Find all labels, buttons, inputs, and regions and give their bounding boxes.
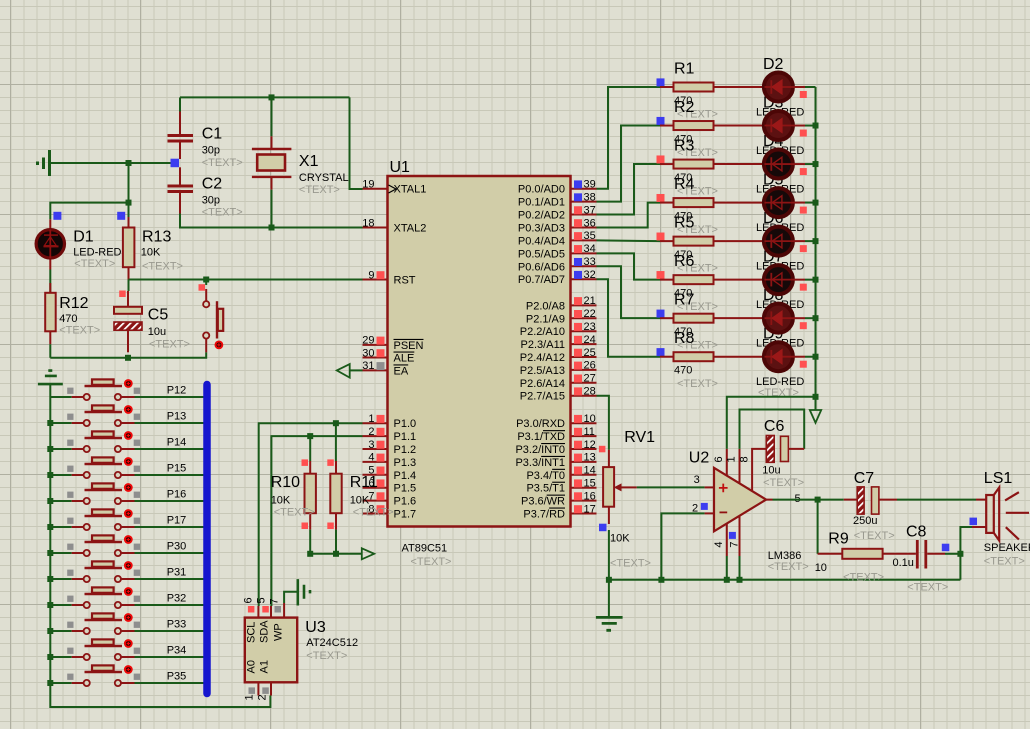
U1 pin 1 (P1.0) (363, 413, 417, 430)
svg-text:<TEXT>: <TEXT> (149, 339, 190, 351)
svg-text:ALE: ALE (394, 353, 415, 365)
junction LED bus row 3 (813, 161, 819, 167)
svg-text:RST: RST (394, 275, 416, 287)
svg-text:10: 10 (815, 562, 827, 574)
wire U1 pin1 to U3 SCL (259, 423, 363, 606)
svg-text:P14: P14 (167, 437, 187, 449)
svg-text:18: 18 (362, 217, 374, 229)
wire XTAL1 branch (350, 97, 363, 189)
junction left rail P32 (47, 602, 53, 608)
wire U1 pin2 to U3 SDA (271, 436, 362, 606)
push button P35 (50, 665, 140, 686)
wire C7 to LS1 (897, 499, 976, 501)
LED D7 (764, 265, 805, 294)
junction LED bus row 8 (813, 354, 819, 360)
bottom rail (audio section) (609, 579, 961, 581)
U1 pin 24 (P2.3/A11) (521, 334, 597, 351)
LED D5 (764, 188, 805, 217)
capacitor C7 (electrolytic) (844, 487, 897, 514)
wire U3 WP to ground (284, 592, 297, 603)
wire P32 to bus (135, 604, 204, 606)
wire EA to arrow (350, 369, 363, 371)
svg-text:R7: R7 (674, 292, 695, 309)
U3 pin 7 (WP) (269, 598, 285, 641)
svg-text:470: 470 (59, 313, 77, 325)
wire C5 top stub (128, 280, 130, 292)
junction at (128.5,202.6) (126, 200, 132, 206)
svg-text:<TEXT>: <TEXT> (907, 582, 948, 594)
svg-text:27: 27 (584, 373, 596, 385)
wire rail up to LS1 bottom (960, 527, 972, 580)
svg-text:A0: A0 (246, 660, 258, 673)
wire U1 pin 34 to R6 (597, 253, 661, 279)
junction LED bus row 7 (813, 315, 819, 321)
wire D2 to LED bus (805, 86, 816, 88)
push button P14 (50, 431, 140, 452)
U1 pin 21 (P2.0/A8) (526, 295, 597, 312)
svg-text:7: 7 (729, 541, 741, 547)
capacitor C6 (electrolytic) (766, 436, 804, 463)
wire top XTAL net (180, 96, 350, 98)
wire U1 pin 33 to R7 (597, 266, 661, 318)
blue terminal marker near R13 top (117, 212, 125, 220)
junction at (128.5,163) (126, 160, 132, 166)
svg-text:<TEXT>: <TEXT> (202, 206, 243, 218)
wire D8 to LED bus (805, 317, 816, 319)
LED D1 (36, 219, 64, 269)
svg-text:R1: R1 (674, 61, 695, 78)
svg-text:P13: P13 (167, 411, 187, 423)
wire P15 to bus (135, 474, 204, 476)
svg-text:P2.1/A9: P2.1/A9 (526, 313, 565, 325)
capacitor C5 (electrolytic) (114, 291, 142, 352)
wire button bank left rail (50, 384, 270, 707)
svg-text:P3.6/WR: P3.6/WR (521, 496, 565, 508)
red terminal marker D8 (800, 322, 807, 329)
U1 pin 33 (P0.6/AD6) (518, 256, 597, 273)
push button P17 (50, 509, 140, 530)
ground (U3 WP) (298, 579, 310, 605)
svg-text:P17: P17 (167, 515, 187, 527)
wire U2 pin7 to rail (739, 556, 741, 580)
svg-text:P15: P15 (167, 463, 187, 475)
red terminal marker D4 (800, 168, 807, 175)
svg-text:C6: C6 (764, 418, 785, 435)
svg-text:<TEXT>: <TEXT> (274, 506, 315, 518)
svg-text:<TEXT>: <TEXT> (610, 558, 651, 570)
svg-text:P3.2/INT0: P3.2/INT0 (515, 444, 565, 456)
svg-text:R3: R3 (674, 138, 695, 155)
ground (bottom, RV1) (596, 617, 623, 630)
svg-text:10u: 10u (762, 464, 780, 476)
svg-text:C7: C7 (854, 470, 875, 487)
svg-text:1: 1 (368, 413, 374, 425)
svg-text:XTAL2: XTAL2 (394, 222, 427, 234)
svg-text:10: 10 (584, 413, 596, 425)
bus bar (blue) (203, 385, 211, 694)
svg-text:<TEXT>: <TEXT> (74, 258, 115, 270)
svg-text:7: 7 (368, 490, 374, 502)
svg-text:P31: P31 (167, 567, 187, 579)
junction left rail P17 (47, 524, 53, 530)
LED D8 (764, 304, 805, 333)
wire D5 to LED bus (805, 202, 816, 204)
resistor R4 (657, 194, 763, 207)
crystal X1 (252, 136, 292, 189)
svg-text:4: 4 (368, 452, 374, 464)
blue terminal marker near D1 top (53, 212, 61, 220)
wire X1 top stub (271, 97, 273, 136)
svg-text:14: 14 (584, 465, 596, 477)
junction LED bus row 4 (813, 200, 819, 206)
svg-text:<TEXT>: <TEXT> (677, 378, 718, 390)
U1 pin 34 (P0.5/AD5) (518, 243, 597, 260)
junction LED bus / U2 pin6 net (813, 394, 819, 400)
svg-text:P2.0/A8: P2.0/A8 (526, 300, 565, 312)
resistor R8 (657, 348, 763, 361)
svg-text:10K: 10K (141, 247, 161, 259)
svg-text:C8: C8 (906, 523, 927, 540)
junction LED bus row 2 (813, 123, 819, 129)
junction at (271.5,97.4) (269, 94, 275, 100)
svg-text:P1.3: P1.3 (394, 457, 417, 469)
svg-text:32: 32 (584, 269, 596, 281)
svg-text:25: 25 (584, 347, 596, 359)
svg-text:SCL: SCL (246, 622, 258, 643)
U1 pin 5 (P1.4) (363, 465, 417, 482)
svg-text:4: 4 (713, 541, 725, 547)
push button P16 (50, 483, 140, 504)
svg-text:1: 1 (244, 694, 256, 700)
svg-text:3: 3 (368, 439, 374, 451)
U1 pin 37 (P0.2/AD2) (518, 204, 597, 221)
svg-text:33: 33 (584, 256, 596, 268)
resistor R6 (657, 271, 763, 284)
svg-text:7: 7 (269, 598, 281, 604)
svg-text:LS1: LS1 (984, 470, 1013, 487)
U3 pin 1 (A0) (244, 660, 258, 700)
wire RV1 wiper to U2 pin3 (637, 486, 705, 488)
wire P35 to bus (135, 682, 204, 684)
U1 pin 18 (XTAL2) (362, 217, 426, 234)
red terminal marker C5 top (119, 291, 126, 298)
wire U1 pin 38 to R2 (597, 126, 661, 202)
red terminal marker D7 (800, 284, 807, 291)
wire U1 pin 39 to R1 (597, 87, 661, 189)
svg-text:C2: C2 (202, 176, 223, 193)
U1 pin 38 (P0.1/AD1) (518, 191, 597, 208)
wire R13 top stub (128, 203, 130, 217)
svg-text:P0.7/AD7: P0.7/AD7 (518, 274, 565, 286)
U1 pin 14 (P3.4/|T0) (526, 465, 596, 482)
junction at (128,357.8) (125, 355, 131, 361)
resistor R11 (327, 459, 341, 529)
junction at (739.5,579.8) (737, 577, 743, 583)
U3 pin 5 (SDA) (256, 597, 271, 643)
push button P15 (50, 457, 140, 478)
svg-text:PSEN: PSEN (394, 340, 424, 352)
U1 pin 6 (P1.5) (363, 478, 417, 495)
blue terminal marker C8 right (942, 544, 950, 552)
wire P14 to bus (135, 448, 204, 450)
push button P34 (50, 639, 140, 660)
svg-text:<TEXT>: <TEXT> (854, 530, 895, 542)
svg-text:P12: P12 (167, 385, 187, 397)
wire RST net R13 to U1 pin 9 (129, 279, 363, 281)
junction left rail P14 (47, 446, 53, 452)
wire node down to D1/R13 row (128, 163, 130, 203)
svg-text:P35: P35 (167, 671, 187, 683)
svg-text:D2: D2 (763, 56, 784, 73)
svg-text:XTAL1: XTAL1 (394, 184, 427, 196)
wire U2 output to C7 (773, 499, 844, 501)
wire P33 to bus (135, 630, 204, 632)
svg-text:<TEXT>: <TEXT> (59, 325, 100, 337)
wire U2 pin1 loop (740, 410, 805, 449)
svg-text:23: 23 (584, 321, 596, 333)
U1 pin 8 (P1.7) (363, 503, 417, 520)
wire U1 pin 35 to R5 (597, 239, 661, 242)
wire P16 to bus (135, 500, 204, 502)
svg-text:P1.5: P1.5 (394, 483, 417, 495)
wire U1 pin28 to RV1 (597, 396, 609, 450)
svg-text:470: 470 (674, 365, 692, 377)
svg-text:250u: 250u (853, 515, 877, 527)
svg-text:R9: R9 (828, 531, 849, 548)
junction at (336,553.8) (333, 551, 339, 557)
svg-text:10K: 10K (271, 494, 291, 506)
junction at (608.9,579.8) (606, 577, 612, 583)
U1 pin 36 (P0.3/AD3) (518, 217, 597, 234)
resistor R10 (302, 459, 316, 529)
svg-text:24: 24 (584, 334, 596, 346)
svg-text:3: 3 (694, 474, 700, 486)
svg-text:P32: P32 (167, 593, 187, 605)
svg-text:2: 2 (257, 694, 269, 700)
svg-text:P0.4/AD4: P0.4/AD4 (518, 235, 565, 247)
blue terminal marker between U2 pins 4/7 (729, 532, 736, 539)
junction at (310.2,436.1) (307, 433, 313, 439)
svg-text:P1.4: P1.4 (394, 470, 417, 482)
svg-text:C1: C1 (202, 125, 223, 142)
svg-text:R10: R10 (271, 474, 300, 491)
svg-text:U3: U3 (305, 619, 326, 636)
wire LED common bus (815, 87, 817, 397)
svg-text:U1: U1 (390, 159, 411, 176)
svg-text:P0.2/AD2: P0.2/AD2 (518, 210, 565, 222)
net arrow at EA pin 31 (337, 364, 350, 378)
U1 pin 22 (P2.1/A9) (526, 308, 597, 325)
U1 pin 23 (P2.2/A10) (520, 321, 597, 338)
wire U1 pin 36 to R4 (597, 203, 661, 228)
junction left rail P16 (47, 498, 53, 504)
U1 pin 19 (XTAL1) (362, 179, 426, 196)
svg-text:P2.6/A14: P2.6/A14 (520, 378, 565, 390)
svg-text:15: 15 (584, 478, 596, 490)
U1 pin 26 (P2.5/A13) (520, 360, 597, 377)
svg-text:P3.4/T0: P3.4/T0 (526, 470, 565, 482)
svg-text:<TEXT>: <TEXT> (984, 556, 1025, 568)
U1 pin 15 (P3.5/|T1) (526, 478, 596, 495)
U3 pin 2 (A1) (257, 660, 271, 700)
junction at (271.5,227.5) (269, 225, 275, 231)
svg-text:R13: R13 (142, 229, 171, 246)
svg-text:R11: R11 (350, 474, 378, 491)
wire bottom rail of reset circuit (50, 352, 206, 358)
svg-text:1: 1 (726, 456, 738, 462)
red terminal marker D3 (800, 130, 807, 137)
op-amp U2 LM386 (705, 449, 773, 556)
svg-text:38: 38 (584, 191, 596, 203)
svg-text:37: 37 (584, 204, 596, 216)
wire pin2 net to R10 (309, 436, 311, 461)
wire U2 pin6 to LED bus net (727, 397, 816, 449)
U1 pin 32 (P0.7/AD7) (518, 269, 597, 286)
wire P13 to bus (135, 422, 204, 424)
junction left rail P13 (47, 420, 53, 426)
svg-text:P2.3/A11: P2.3/A11 (521, 339, 565, 351)
LED D3 (764, 111, 805, 140)
wire output down to R9 (817, 500, 819, 554)
wire D4 to LED bus (805, 163, 816, 165)
LED D2 (764, 73, 805, 102)
svg-text:R4: R4 (674, 176, 695, 193)
svg-text:10K: 10K (350, 494, 370, 506)
U1 pin 28 (P2.7/A15) (520, 386, 597, 403)
wire U1 pin 32 to R8 (597, 279, 661, 357)
svg-text:AT24C512: AT24C512 (306, 637, 358, 649)
junction at (335.9,423.2) (333, 420, 339, 426)
junction left rail P15 (47, 472, 53, 478)
svg-text:P2.5/A13: P2.5/A13 (520, 365, 565, 377)
svg-text:WP: WP (273, 623, 285, 641)
wire C2 to XTAL2 net (180, 214, 363, 228)
wire pin1 net to R11 (335, 423, 337, 461)
svg-text:28: 28 (584, 386, 596, 398)
svg-text:P2.2/A10: P2.2/A10 (520, 326, 565, 338)
wire P12 to bus (135, 396, 204, 398)
svg-text:RV1: RV1 (624, 429, 655, 446)
svg-text:P1.6: P1.6 (394, 496, 417, 508)
svg-text:P1.7: P1.7 (394, 509, 417, 521)
blue terminal marker U2 pin2 (701, 503, 708, 510)
svg-text:P1.1: P1.1 (394, 431, 417, 443)
net arrow at LED bus end (815, 397, 817, 410)
U1 pin 12 (P3.2/|INT0) (515, 439, 596, 456)
wire U1 pin 37 to R3 (597, 164, 661, 215)
svg-text:30p: 30p (202, 195, 220, 207)
svg-text:16: 16 (584, 490, 596, 502)
svg-text:<TEXT>: <TEXT> (411, 556, 452, 568)
wire C8 to LS1 bottom (945, 553, 960, 555)
junction left rail P30 (47, 550, 53, 556)
svg-text:22: 22 (584, 308, 596, 320)
push button P30 (50, 535, 140, 556)
svg-text:P3.5/T1: P3.5/T1 (526, 483, 565, 495)
svg-text:31: 31 (362, 360, 374, 372)
svg-text:6: 6 (243, 597, 255, 603)
svg-text:11: 11 (584, 426, 595, 438)
wire R10/R11 common (310, 530, 362, 554)
svg-text:<TEXT>: <TEXT> (843, 572, 884, 584)
svg-text:P3.3/INT1: P3.3/INT1 (515, 457, 565, 469)
svg-text:P30: P30 (167, 541, 187, 553)
junction at (310.2,553.8) (307, 551, 313, 557)
resistor R5 (657, 233, 763, 246)
junction LED bus row 6 (813, 277, 819, 283)
U1 pin 35 (P0.4/AD4) (518, 230, 597, 247)
push button P33 (50, 613, 140, 634)
svg-text:<TEXT>: <TEXT> (306, 650, 347, 662)
wire D3 to LED bus (805, 125, 816, 127)
U1 pin 3 (P1.2) (363, 439, 417, 456)
svg-text:35: 35 (584, 230, 596, 242)
push button (reset) (203, 280, 223, 353)
svg-text:5: 5 (256, 597, 268, 603)
U1 pin 39 (P0.0/AD0) (518, 179, 597, 196)
net arrow right of R10/R11 (362, 548, 374, 559)
svg-text:2: 2 (692, 502, 698, 514)
wire D6 to LED bus (805, 240, 816, 242)
U1 pin 29 (PSEN) (362, 335, 423, 352)
svg-text:P3.1/TXD: P3.1/TXD (517, 431, 565, 443)
svg-text:R2: R2 (674, 99, 695, 116)
push button P12 (50, 379, 140, 400)
svg-text:P33: P33 (167, 619, 187, 631)
svg-text:<TEXT>: <TEXT> (353, 506, 394, 518)
wire to D1 column (50, 203, 128, 220)
junction left rail P35 (47, 680, 53, 686)
wire P34 to bus (135, 656, 204, 658)
svg-text:0.1u: 0.1u (893, 557, 914, 569)
LED D4 (764, 150, 805, 179)
U1 pin 7 (P1.6) (363, 490, 417, 507)
ground (top left) (38, 150, 50, 176)
U1 pin 25 (P2.4/A12) (520, 347, 597, 364)
resistor R13 (123, 217, 134, 280)
push button P13 (50, 405, 140, 426)
svg-text:12: 12 (584, 439, 596, 451)
svg-text:<TEXT>: <TEXT> (763, 477, 804, 489)
svg-text:6: 6 (713, 456, 725, 462)
U1 pin 30 (ALE) (362, 347, 414, 364)
svg-text:13: 13 (584, 452, 596, 464)
U3 pin 6 (SCL) (243, 597, 258, 643)
EEPROM U3 AT24C512 (245, 603, 297, 696)
svg-text:U2: U2 (689, 450, 710, 467)
svg-text:<TEXT>: <TEXT> (202, 157, 243, 169)
capacitor C8 (916, 540, 945, 569)
wire D7 to LED bus (805, 279, 816, 281)
wire X1 bottom to XTAL2 net (271, 190, 273, 228)
svg-text:36: 36 (584, 217, 596, 229)
resistor R3 (657, 155, 763, 168)
resistor R12 (45, 283, 56, 344)
junction left rail P31 (47, 576, 53, 582)
red terminal marker D9 (800, 361, 807, 368)
svg-text:P1.0: P1.0 (394, 418, 417, 430)
svg-text:P3.0/RXD: P3.0/RXD (516, 418, 565, 430)
svg-text:P2.4/A12: P2.4/A12 (520, 352, 565, 364)
wire P31 to bus (135, 578, 204, 580)
svg-text:P3.7/RD: P3.7/RD (523, 509, 565, 521)
svg-text:<TEXT>: <TEXT> (142, 261, 183, 273)
wire P30 to bus (135, 552, 204, 554)
svg-text:34: 34 (584, 243, 596, 255)
svg-text:AT89C51: AT89C51 (402, 543, 448, 555)
U1 pin 17 (P3.7/|RD) (523, 503, 596, 520)
svg-text:9: 9 (368, 269, 374, 281)
